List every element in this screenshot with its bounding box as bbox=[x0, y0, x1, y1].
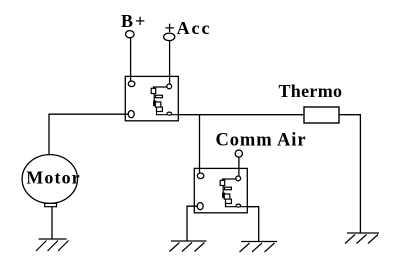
ground (relay K2 left) bbox=[170, 241, 207, 252]
ground (relay K2 right) bbox=[240, 242, 278, 253]
wire relay K1 to thermo bus bbox=[178, 114, 304, 116]
resistor thermo switch bbox=[304, 107, 339, 123]
wire relay K2 to right ground bbox=[247, 207, 258, 242]
relay K2 bbox=[194, 168, 247, 212]
relay K2 coil/contact squiggle bbox=[223, 179, 236, 180]
relay K1 terminal 85 (top-right) bbox=[167, 84, 172, 89]
wire relay K1 to left bus bbox=[49, 114, 128, 155]
wire relay K2 to left ground bbox=[187, 206, 197, 241]
ground (thermo) bbox=[345, 233, 379, 244]
relay K2 terminal top-right bbox=[236, 176, 241, 181]
wire bus to relay K2 bbox=[199, 115, 201, 173]
svg-text:Thermo: Thermo bbox=[279, 81, 343, 101]
terminal B+ bbox=[126, 31, 135, 38]
svg-text:Comm Air: Comm Air bbox=[216, 130, 307, 150]
relay K2 contact oval bbox=[236, 204, 241, 207]
relay K1 box bbox=[125, 76, 178, 120]
wire B+ to relay K1 bbox=[130, 38, 132, 81]
motor M1 bbox=[22, 155, 77, 204]
relay K1 contact oval 87a bbox=[167, 112, 172, 115]
wire thermo to right ground bbox=[339, 115, 360, 233]
relay K1 terminal 86 (top-left) bbox=[128, 81, 135, 87]
wire motor to ground bbox=[51, 207, 53, 239]
relay K2 terminal bottom-left bbox=[197, 203, 203, 210]
terminal +Acc bbox=[164, 33, 175, 41]
relay K1 bbox=[125, 76, 178, 120]
svg-text:B+: B+ bbox=[121, 11, 147, 31]
terminal Comm Air bbox=[235, 150, 242, 157]
relay K2 terminal top-left bbox=[197, 173, 204, 179]
wire +Acc to relay K1 bbox=[169, 41, 171, 84]
relay K1 coil/contact squiggle bbox=[154, 87, 167, 88]
relay K1 terminal 30 (bottom-left) bbox=[128, 111, 134, 118]
svg-text:Motor: Motor bbox=[26, 168, 80, 188]
ground (motor) bbox=[36, 239, 69, 251]
wire Comm Air to relay K2 bbox=[238, 157, 240, 176]
motor brush block bbox=[45, 203, 57, 206]
relay K2 box bbox=[194, 168, 247, 212]
